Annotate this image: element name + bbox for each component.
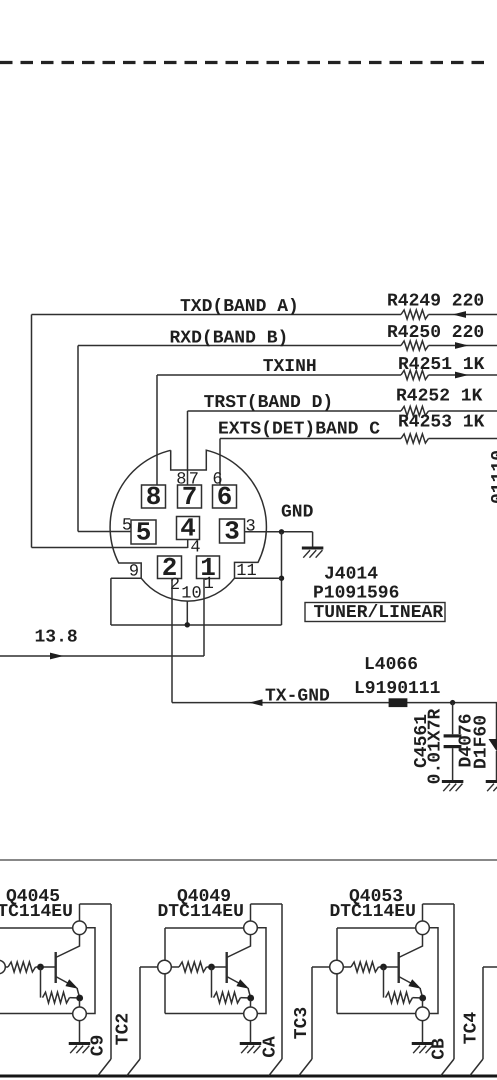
wire shield rect bottom — [111, 624, 282, 626]
svg-text:TXD(BAND A): TXD(BAND A) — [180, 297, 299, 317]
wire Q4049 emitter stem — [250, 1000, 252, 1007]
node Q4053 base junction — [380, 964, 387, 971]
ground GND symbol — [302, 547, 324, 550]
wire pin 3 to GND net — [245, 531, 313, 533]
wire TXINH horizontal — [157, 374, 401, 376]
wire Q4053 left vertical — [311, 967, 313, 1059]
wire Q4053 right bracket — [429, 928, 438, 1014]
wire shield rect top-right — [235, 577, 282, 579]
wire Q4045 collector stem — [79, 904, 81, 921]
node Q4045 base junction — [37, 964, 44, 971]
svg-text:CB: CB — [430, 1038, 450, 1060]
wire Q4049 box bottom — [165, 1013, 244, 1015]
svg-text:8: 8 — [146, 482, 162, 512]
ground under C4561 — [442, 780, 464, 783]
wire Q4045 ground stem — [79, 1021, 81, 1043]
wire Q4049 right bracket — [257, 928, 266, 1014]
arrow on TXD(BAND A) line — [453, 311, 467, 318]
wire Q4053 box top — [337, 927, 416, 929]
svg-text:5: 5 — [122, 517, 132, 536]
svg-text:J4014: J4014 — [324, 565, 378, 585]
node TUNER/LINEAR box — [305, 603, 445, 622]
wire EXTS(DET)BAND C vertical drop — [219, 439, 221, 486]
node Q4049 input terminal — [158, 960, 172, 974]
wire EXTS(DET)BAND C horizontal — [220, 438, 401, 440]
wire Q4049 tall diagonal — [269, 1059, 282, 1076]
wire RXD(BAND B) horizontal — [78, 345, 401, 347]
pin square 4 of connector J4014 — [177, 517, 200, 540]
wire Q4049 left vertical — [139, 967, 141, 1059]
transistor Q4053 collector — [399, 935, 423, 958]
wire TX-GND horizontal — [172, 702, 497, 704]
wire pin 2 vertical to TX-GND — [171, 578, 173, 702]
wire Q4045 tall diagonal — [98, 1059, 111, 1076]
svg-text:0.01X7R: 0.01X7R — [426, 709, 446, 785]
wire Q4053 ground stem — [422, 1021, 424, 1043]
svg-text:DTC114EU: DTC114EU — [330, 902, 416, 922]
svg-text:TRST(BAND D): TRST(BAND D) — [204, 393, 334, 413]
wire shield vertical — [281, 532, 283, 625]
wire C4561 bottom lead — [452, 748, 454, 780]
svg-text:8: 8 — [176, 471, 186, 490]
svg-text:5: 5 — [136, 518, 152, 548]
wire Q4045 tall vertical — [110, 904, 112, 1059]
wire TXD(BAND A) horizontal — [32, 314, 402, 316]
wire shield rect left — [110, 578, 112, 625]
transistor Q4045 emitter arrow — [65, 979, 78, 989]
wire Q4049 ground stem — [250, 1021, 252, 1043]
resistor R4253 — [401, 434, 429, 443]
arrow on RXD(BAND B) line — [455, 342, 469, 349]
wire Q4053 tall vertical — [453, 904, 455, 1059]
node Q4049 emitter terminal — [244, 1007, 258, 1021]
svg-text:6: 6 — [212, 471, 222, 490]
pin square 6 of connector J4014 — [213, 485, 237, 508]
svg-text:L4066: L4066 — [364, 655, 418, 675]
resistor Q4053 base input — [351, 962, 379, 972]
node Q4053 input terminal — [330, 960, 344, 974]
wire shield rect top-left — [111, 577, 141, 579]
wire Q4049 pulldown to emitter — [241, 997, 251, 999]
wire D4076 anode lead — [496, 703, 497, 739]
node Q4053 emitter terminal — [416, 1007, 430, 1021]
wire Q4053 input left — [312, 966, 337, 968]
svg-text:R4253 1K: R4253 1K — [398, 413, 485, 433]
svg-text:3: 3 — [245, 518, 255, 537]
resistor Q4045 base input — [8, 962, 36, 972]
diode D4076 — [489, 739, 497, 751]
svg-text:1: 1 — [204, 575, 214, 594]
wire Q4049 input left — [140, 966, 165, 968]
transistor Q4053 emitter arrow — [408, 979, 421, 989]
ground under Q4053 — [412, 1042, 434, 1045]
ground under Q4045 — [69, 1042, 91, 1045]
svg-text:TUNER/LINEAR: TUNER/LINEAR — [314, 603, 444, 623]
connector J4014 body outline — [110, 450, 266, 601]
node junction pin3/shield — [279, 529, 284, 534]
pin square 8 of connector J4014 — [142, 485, 166, 508]
wire TXD(BAND A) vertical drop — [31, 315, 33, 548]
svg-text:TC2: TC2 — [114, 1013, 134, 1045]
resistor Q4049 base input — [179, 962, 207, 972]
wire TXD to pin 4 — [32, 547, 188, 549]
svg-text:TXINH: TXINH — [263, 357, 317, 377]
wire dashed border line — [0, 61, 492, 64]
resistor R4251 — [401, 370, 429, 379]
transistor Q4049 base bar — [225, 952, 227, 983]
wire TC5 cell stub horizontal — [483, 966, 497, 968]
wire Q4053 box left — [336, 928, 338, 1014]
wire Q4053 top horizontal — [423, 903, 455, 905]
svg-text:R4252 1K: R4252 1K — [396, 387, 483, 407]
arrow on TX-GND line — [249, 699, 263, 706]
svg-text:CA: CA — [261, 1036, 281, 1058]
svg-text:L9190111: L9190111 — [354, 679, 441, 699]
svg-text:P1091596: P1091596 — [313, 584, 399, 604]
capacitor C4561 — [444, 734, 462, 737]
resistor Q4049 pulldown — [214, 992, 241, 1003]
wire Q4045 top horizontal — [80, 903, 112, 905]
wire pin 10 stub — [186, 601, 188, 625]
wire Q4053 emitter stem — [422, 1000, 424, 1007]
wire TXINH vertical drop — [156, 375, 158, 485]
node Q4049 base junction — [208, 964, 215, 971]
wire bottom thick rail — [0, 1075, 497, 1078]
node junction shield/notch11 — [279, 576, 284, 581]
wire TC5 cell stub diagonal — [470, 1059, 483, 1076]
svg-text:7: 7 — [189, 471, 199, 490]
wire Q4053 pulldown drop — [383, 967, 385, 998]
node junction TX-GND/C4561 — [450, 700, 455, 705]
pin square 3 of connector J4014 — [220, 519, 245, 543]
wire TRST(BAND D) vertical drop — [187, 411, 189, 485]
transistor Q4053 emitter — [399, 977, 419, 988]
node Q4045 input terminal — [0, 960, 5, 974]
wire 13.8 horizontal — [0, 655, 204, 657]
wire C4561 top lead — [452, 703, 454, 735]
resistor R4250 — [401, 341, 429, 350]
wire Q4045 emitter stem — [79, 1000, 81, 1007]
wire Q4049 base wire — [171, 966, 179, 968]
wire Q4053 left diagonal — [299, 1059, 312, 1076]
svg-text:GND: GND — [281, 503, 314, 523]
pin square 1 of connector J4014 — [197, 556, 220, 579]
wire Q4053 collector stem — [422, 904, 424, 921]
node junction pin10/shield — [185, 622, 190, 627]
arrow on TXINH line — [455, 372, 469, 379]
wire Q4049 box left — [164, 928, 166, 1014]
svg-text:R4249 220: R4249 220 — [387, 292, 484, 312]
node Q4049 collector terminal — [244, 921, 258, 935]
wire Q4053 box bottom — [337, 1013, 416, 1015]
resistor Q4053 pulldown — [386, 992, 413, 1003]
resistor R4252 — [401, 406, 429, 415]
svg-text:01110: 01110 — [489, 450, 497, 504]
transistor Q4049 emitter arrow — [236, 979, 249, 989]
wire Q4049 tall vertical — [281, 904, 283, 1059]
svg-text:4: 4 — [190, 539, 200, 558]
wire Q4049 pulldown drop — [211, 967, 213, 998]
svg-text:TC4: TC4 — [462, 1012, 482, 1045]
wire Q4045 pulldown drop — [40, 967, 42, 998]
svg-text:R4250 220: R4250 220 — [387, 323, 484, 343]
wire Q4045 right bracket — [86, 928, 95, 1014]
svg-text:D1F60: D1F60 — [472, 715, 492, 769]
svg-text:DTC114EU: DTC114EU — [158, 902, 244, 922]
wire Q4053 tall diagonal — [441, 1059, 454, 1076]
svg-text:R4251 1K: R4251 1K — [398, 355, 485, 375]
node Q4053 collector terminal — [416, 921, 430, 935]
transistor Q4053 base bar — [398, 952, 400, 983]
svg-text:TC3: TC3 — [292, 1007, 312, 1039]
wire Q4045 box top — [0, 927, 73, 929]
resistor Q4045 pulldown — [43, 992, 70, 1003]
wire D4076 cathode lead — [496, 751, 497, 781]
wire Q4045 base wire — [5, 966, 8, 968]
transistor Q4045 collector — [56, 935, 80, 958]
inductor L4066 — [389, 698, 408, 707]
pin square 5 of connector J4014 — [131, 520, 156, 544]
wire TRST(BAND D) horizontal — [188, 410, 402, 412]
wire GND stub down — [312, 532, 314, 547]
transistor Q4045 base bar — [55, 952, 57, 983]
resistor R4249 — [401, 310, 429, 319]
wire Q4045 pulldown to emitter — [70, 997, 80, 999]
transistor Q4045 emitter — [56, 977, 76, 988]
node Q4049 emitter junction — [247, 995, 254, 1002]
wire upper section rail — [0, 859, 497, 861]
wire TC5 cell stub vertical — [482, 967, 484, 1059]
wire Q4049 box top — [165, 927, 244, 929]
svg-text:3: 3 — [224, 517, 240, 547]
pin square 7 of connector J4014 — [178, 485, 202, 508]
node Q4053 emitter junction — [419, 995, 426, 1002]
ground under Q4049 — [240, 1042, 262, 1045]
arrow on 13.8 line — [50, 653, 64, 660]
wire RXD to pin 5 — [78, 531, 131, 533]
node Q4045 emitter junction — [76, 995, 83, 1002]
svg-text:EXTS(DET)BAND C: EXTS(DET)BAND C — [218, 420, 380, 440]
transistor Q4049 collector — [227, 935, 251, 958]
wire pin 1 vertical to 13.8 — [203, 578, 205, 656]
wire Q4053 base wire — [343, 966, 351, 968]
transistor Q4049 emitter — [227, 977, 247, 988]
node Q4045 collector terminal — [73, 921, 87, 935]
pin square 2 of connector J4014 — [158, 556, 182, 579]
wire Q4049 collector stem — [250, 904, 252, 921]
wire Q4049 top horizontal — [251, 903, 283, 905]
svg-text:C9: C9 — [89, 1035, 109, 1057]
svg-text:TX-GND: TX-GND — [265, 687, 330, 707]
wire Q4045 box bottom — [0, 1013, 73, 1015]
wire Q4049 left diagonal — [127, 1059, 140, 1076]
svg-text:10: 10 — [181, 585, 201, 604]
ground under D4076 — [486, 780, 497, 783]
svg-text:DTC114EU: DTC114EU — [0, 902, 73, 922]
wire RXD(BAND B) vertical drop — [77, 346, 79, 532]
node Q4045 emitter terminal — [73, 1007, 87, 1021]
svg-text:13.8: 13.8 — [35, 628, 78, 648]
wire Q4053 pulldown to emitter — [413, 997, 423, 999]
svg-text:RXD(BAND B): RXD(BAND B) — [170, 329, 289, 349]
